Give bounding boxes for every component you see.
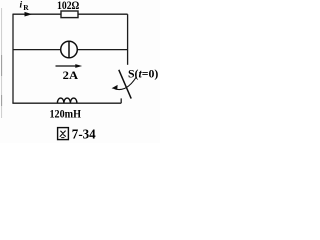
switch contact upturn	[120, 98, 122, 103]
wire left rail	[12, 14, 14, 104]
inductor L	[57, 98, 77, 103]
resistor R 102ohm	[61, 11, 78, 18]
wire bottom	[12, 102, 121, 104]
svg-text:120mH: 120mH	[50, 107, 82, 121]
svg-text:i: i	[20, 1, 23, 11]
svg-text:102Ω: 102Ω	[57, 0, 80, 12]
scan edge artifact	[1, 8, 3, 118]
arrow 2A	[56, 65, 78, 67]
arrow i_R on top wire	[25, 12, 33, 17]
switch closing arc	[115, 77, 137, 90]
svg-text:S(t=0): S(t=0)	[128, 66, 158, 80]
svg-text:R: R	[23, 3, 29, 12]
switch arc arrowhead	[112, 85, 118, 90]
svg-text:7-34: 7-34	[72, 128, 96, 143]
current source bar	[68, 41, 70, 58]
caption glyph tu (figure)	[58, 128, 69, 140]
wire middle branch	[13, 49, 128, 51]
current source circle	[61, 41, 78, 58]
switch blade	[119, 70, 131, 99]
wire top	[13, 13, 128, 15]
svg-text:2A: 2A	[63, 68, 79, 82]
wire right rail	[127, 14, 129, 65]
